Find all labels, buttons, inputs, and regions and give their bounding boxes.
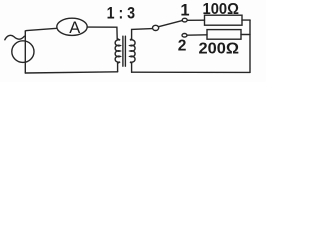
transformer T1 primary coil (115, 39, 120, 64)
wire resistor R1 to right rail (242, 19, 250, 21)
wire bottom right segment (132, 71, 250, 73)
AC source G1 (12, 41, 34, 63)
svg-text:2: 2 (178, 37, 187, 54)
wire contact 2 to resistor R2 (187, 34, 207, 36)
transformer T1 secondary coil (130, 39, 135, 64)
wire ammeter to transformer primary top (87, 27, 117, 39)
transformer T1 core (122, 36, 124, 66)
wire left vertical (24, 31, 26, 73)
switch S1 arm to contact 1 (159, 21, 183, 27)
switch S1 pivot (153, 25, 159, 30)
svg-text:1: 1 (180, 2, 189, 20)
wire primary bottom (117, 63, 119, 72)
ammeter A1 (57, 18, 87, 35)
wire contact 1 to resistor R1 (187, 19, 204, 21)
wire secondary top to switch pivot (132, 29, 153, 39)
switch contact 1 (182, 18, 187, 22)
svg-text:100Ω: 100Ω (203, 1, 240, 18)
resistor R2 box (207, 30, 241, 40)
wire resistor R2 to right rail (241, 34, 250, 36)
svg-text:1 : 3: 1 : 3 (107, 5, 136, 23)
switch contact 2 (182, 34, 187, 38)
wire bottom left segment (25, 72, 117, 73)
wire right rail vertical (249, 20, 251, 72)
svg-text:A: A (69, 19, 80, 37)
wire top left segment (25, 28, 57, 31)
wire secondary bottom (131, 63, 133, 72)
resistor R1 box (205, 15, 243, 25)
AC source tilde symbol (5, 35, 25, 39)
svg-text:200Ω: 200Ω (199, 41, 240, 58)
